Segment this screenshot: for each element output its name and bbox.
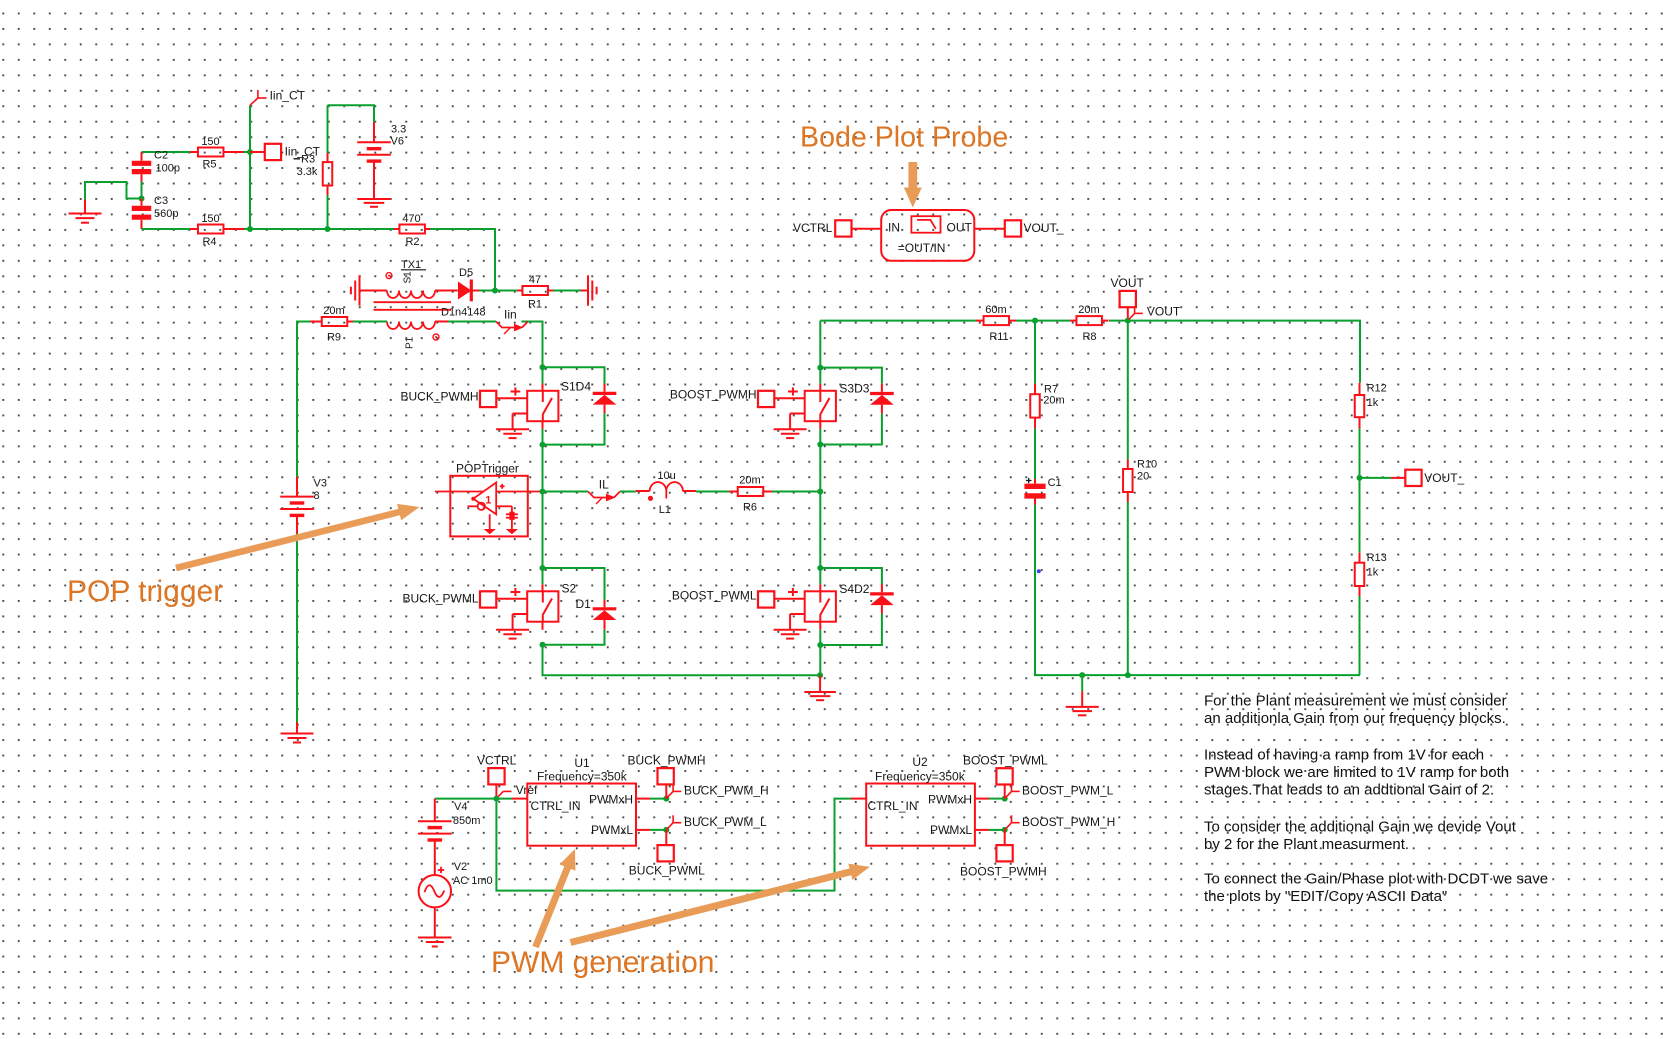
wire S2 to bottom rail bbox=[543, 645, 821, 676]
wire VCTRL loop bbox=[496, 799, 851, 891]
svg-text:C3: C3 bbox=[154, 195, 168, 207]
wire S4 loop top bbox=[820, 568, 882, 584]
svg-text:by 2 for the Plant measurment.: by 2 for the Plant measurment. bbox=[1204, 836, 1409, 853]
net label Vref bbox=[496, 783, 538, 798]
block U2 PWM bbox=[851, 755, 975, 846]
ground under V2 bbox=[418, 938, 452, 947]
transformer TX1 secondary S1 bbox=[386, 259, 458, 298]
wire S2 loop top bbox=[543, 568, 605, 600]
svg-text:R2: R2 bbox=[405, 236, 419, 248]
resistor R11 bbox=[976, 304, 1016, 343]
wire S1 loop bottom bbox=[543, 413, 605, 444]
wire C2 bottom to junction bbox=[141, 182, 143, 199]
wire U2 PWMxL bbox=[975, 829, 1005, 831]
node junction mid rail bbox=[817, 489, 823, 495]
svg-text:PWMxH: PWMxH bbox=[589, 792, 633, 806]
node junction BUCK_PWM_H bbox=[663, 796, 669, 802]
node junction S4 top bbox=[817, 565, 823, 571]
svg-text:TX1: TX1 bbox=[401, 259, 421, 271]
diode D5 bbox=[441, 267, 486, 319]
svg-text:150: 150 bbox=[201, 136, 219, 148]
annotation Bode Plot Probe bbox=[800, 122, 1008, 154]
svg-text:the plots by "EDIT/Copy ASCII: the plots by "EDIT/Copy ASCII Data" bbox=[1204, 888, 1447, 905]
resistor R6 bbox=[729, 475, 772, 514]
node junction BUCK_PWM_L bbox=[663, 827, 669, 833]
terminal BOOST_PWML bbox=[963, 754, 1048, 799]
source V3 battery bbox=[280, 477, 327, 534]
wire S3 loop bottom bbox=[820, 413, 882, 444]
svg-text:8: 8 bbox=[314, 490, 320, 502]
svg-text:BUCK_PWML: BUCK_PWML bbox=[402, 592, 478, 606]
transformer TX1 primary P1 bbox=[387, 322, 448, 350]
svg-text:1k: 1k bbox=[1367, 397, 1379, 409]
net label BOOST_PWM_L bbox=[1005, 784, 1114, 799]
svg-text:BOOST_PWML: BOOST_PWML bbox=[672, 589, 757, 603]
svg-text:3.3k: 3.3k bbox=[297, 166, 318, 178]
switch S1 bbox=[480, 367, 591, 438]
svg-text:BOOST_PWMH: BOOST_PWMH bbox=[960, 865, 1047, 879]
svg-text:R12: R12 bbox=[1367, 383, 1387, 395]
label R3 leader bbox=[294, 154, 318, 179]
wire ground branch topleft bbox=[85, 182, 142, 200]
wire mid rail down to S2 bbox=[542, 492, 544, 569]
net label lin_CT (top marker) bbox=[250, 88, 306, 105]
wire C1 to bottom rail bbox=[1035, 505, 1360, 675]
wire R3 to V6 bbox=[328, 105, 375, 122]
node junction C2/C3 bbox=[139, 196, 145, 202]
svg-text:U2: U2 bbox=[912, 755, 928, 769]
switch S3 bbox=[758, 368, 870, 439]
svg-text:BUCK_PWMH: BUCK_PWMH bbox=[400, 390, 478, 404]
wire R3 bottom bbox=[327, 195, 329, 229]
wire bus mid bbox=[244, 228, 394, 230]
terminal BUCK_PWML bbox=[629, 830, 705, 878]
wire R12 to VOUT_ node bbox=[1359, 429, 1361, 478]
svg-text:OUT: OUT bbox=[947, 221, 973, 235]
block U1 PWM bbox=[512, 756, 636, 846]
resistor R9 bbox=[310, 305, 353, 344]
wire U1 PWMxH bbox=[636, 798, 666, 800]
node junction left bottom rail bbox=[817, 672, 823, 678]
svg-text:Iin: Iin bbox=[504, 307, 517, 321]
wire V2 to ground bbox=[434, 907, 436, 936]
note text block bbox=[1204, 693, 1548, 906]
svg-text:R7: R7 bbox=[1044, 383, 1058, 395]
inductor L1 bbox=[636, 470, 696, 516]
svg-text:Frequency=350k: Frequency=350k bbox=[537, 769, 628, 783]
svg-text:P1: P1 bbox=[405, 336, 416, 349]
svg-text:PWMxL: PWMxL bbox=[930, 823, 972, 837]
resistor R12 bbox=[1355, 383, 1387, 429]
current probe IL bbox=[588, 477, 620, 504]
termination ground right of R1 bbox=[581, 275, 597, 305]
svg-text:D5: D5 bbox=[459, 267, 473, 279]
svg-text:L1: L1 bbox=[659, 504, 671, 516]
svg-text:20m: 20m bbox=[1043, 395, 1064, 407]
wire Iin to S1 node bbox=[528, 322, 543, 368]
svg-text:R5: R5 bbox=[202, 159, 216, 171]
svg-text:VOUT: VOUT bbox=[1147, 305, 1181, 319]
node junction S3 top bbox=[817, 365, 823, 371]
net label BUCK_PWM_L bbox=[666, 815, 767, 830]
diode D1 bbox=[576, 597, 617, 630]
wire R1 to termination bbox=[553, 290, 581, 292]
svg-text:C1: C1 bbox=[1048, 477, 1062, 489]
wire lin_CT vertical bbox=[249, 105, 251, 229]
label BOOST_PWML wire bbox=[672, 589, 757, 603]
wire mid rail down to S4 bbox=[819, 492, 821, 569]
svg-text:470: 470 bbox=[402, 213, 420, 225]
node junction BOOST_PWM_L bbox=[1002, 796, 1008, 802]
node junction S2 bottom bbox=[540, 642, 546, 648]
svg-text:D1: D1 bbox=[576, 597, 592, 611]
node junction S3 bottom bbox=[817, 442, 823, 448]
net label BOOST_PWM_H bbox=[1005, 815, 1116, 830]
ground bottom left rail bbox=[804, 675, 836, 700]
svg-text:V3: V3 bbox=[314, 478, 327, 490]
diode D4 bbox=[593, 384, 617, 414]
terminal VOUT_ (probe) bbox=[1005, 220, 1064, 236]
svg-text:10u: 10u bbox=[657, 470, 675, 482]
svg-text:Instead of having a ramp from: Instead of having a ramp from 1V for eac… bbox=[1204, 747, 1484, 764]
svg-text:Frequency=350k: Frequency=350k bbox=[875, 769, 966, 783]
node junction D5/R2 bbox=[492, 288, 498, 294]
svg-text:VOUT: VOUT bbox=[1111, 276, 1145, 290]
ground under V3 bbox=[281, 722, 314, 743]
terminal VCTRL (pwm) bbox=[477, 754, 517, 799]
wire top rail left bbox=[820, 320, 976, 322]
wire R7 to C1 bbox=[1034, 428, 1036, 479]
svg-text:60m: 60m bbox=[985, 304, 1006, 316]
wire S4 loop bottom bbox=[820, 614, 882, 646]
wire R11 to R8 bbox=[1016, 320, 1070, 322]
svg-text:R11: R11 bbox=[989, 331, 1008, 343]
svg-text:BUCK_PWML: BUCK_PWML bbox=[629, 864, 705, 878]
svg-text:BUCK_PWM_H: BUCK_PWM_H bbox=[684, 784, 769, 798]
capacitor C1 bbox=[1024, 477, 1061, 505]
resistor R5 bbox=[190, 136, 244, 171]
terminal Iin_CT bbox=[250, 144, 321, 160]
annotation arrow to POP bbox=[175, 504, 419, 571]
wire L1 to R6 bbox=[696, 491, 729, 493]
svg-text:100p: 100p bbox=[156, 163, 180, 175]
svg-text:20m: 20m bbox=[323, 305, 344, 317]
svg-text:PWMxL: PWMxL bbox=[591, 823, 633, 837]
svg-text:V6: V6 bbox=[391, 135, 404, 147]
svg-text:For the Plant measurement we m: For the Plant measurement we must consid… bbox=[1204, 693, 1507, 710]
svg-text:D1n4148: D1n4148 bbox=[441, 307, 486, 319]
wire VOUT_ node to R13 bbox=[1359, 478, 1361, 553]
svg-text:S4D2: S4D2 bbox=[839, 582, 869, 596]
svg-text:BOOST_PWM_H: BOOST_PWM_H bbox=[1022, 815, 1115, 829]
terminal VOUT_ bbox=[1360, 470, 1465, 486]
wire U2 PWMxH bbox=[975, 798, 1005, 800]
svg-text:CTRL_IN: CTRL_IN bbox=[868, 799, 918, 813]
node junction R5/lin_CT bbox=[247, 149, 253, 155]
svg-text:=OUT/IN: =OUT/IN bbox=[898, 241, 946, 255]
node junction S1 bottom bbox=[540, 442, 546, 448]
net label BUCK_PWM_H bbox=[666, 784, 768, 799]
wire U1 PWMxL bbox=[636, 829, 666, 831]
svg-text:BUCK_PWMH: BUCK_PWMH bbox=[628, 754, 706, 768]
wire bus to D5 node bbox=[430, 229, 495, 291]
transformer TX1 core bbox=[374, 302, 452, 310]
svg-text:PWM block we are limited to 1V: PWM block we are limited to 1V ramp for … bbox=[1204, 764, 1509, 781]
ground topleft bbox=[69, 200, 102, 223]
annotation PWM generation bbox=[491, 946, 714, 979]
capacitor C3 bbox=[132, 195, 179, 229]
resistor R1 bbox=[517, 274, 553, 311]
wire P1 to Iin probe bbox=[448, 321, 496, 323]
svg-text:BOOST_PWML: BOOST_PWML bbox=[963, 754, 1048, 768]
node junction R7 top bbox=[1032, 318, 1038, 324]
wire POP to IL bbox=[543, 491, 589, 493]
svg-text:VCTRL: VCTRL bbox=[477, 754, 517, 768]
resistor R3 bbox=[323, 153, 333, 195]
annotation arrow to probe bbox=[904, 162, 922, 208]
wire S3 to mid rail bbox=[819, 429, 821, 492]
svg-text:V2: V2 bbox=[454, 861, 467, 873]
svg-text:POP trigger: POP trigger bbox=[67, 575, 223, 608]
svg-text:U1: U1 bbox=[574, 756, 590, 770]
wire S1 to POP node bbox=[542, 429, 544, 492]
annotation POP trigger bbox=[67, 575, 223, 608]
svg-text:To connect the Gain/Phase plot: To connect the Gain/Phase plot with DCDT… bbox=[1204, 871, 1548, 888]
wire S1 loop top bbox=[543, 367, 605, 383]
svg-text:S1: S1 bbox=[403, 271, 414, 284]
source V4 battery bbox=[418, 799, 480, 876]
svg-text:C2: C2 bbox=[154, 150, 168, 162]
node junction S4 bottom bbox=[817, 642, 823, 648]
node junction S2 top bbox=[540, 565, 546, 571]
node junction R10 bottom bbox=[1125, 672, 1131, 678]
svg-text:VOUT_: VOUT_ bbox=[1424, 471, 1464, 485]
resistor R13 bbox=[1355, 552, 1387, 596]
capacitor C2 bbox=[132, 150, 180, 182]
wire R10 column bottom bbox=[1127, 502, 1129, 675]
wire top rail right bbox=[1109, 321, 1360, 383]
svg-text:VCTRL: VCTRL bbox=[793, 221, 833, 235]
svg-text:R9: R9 bbox=[327, 332, 341, 344]
source V6 battery bbox=[357, 122, 406, 199]
ground bottom right rail bbox=[1066, 675, 1099, 715]
switch S2 bbox=[480, 568, 577, 639]
svg-text:POPTrigger: POPTrigger bbox=[456, 461, 519, 475]
wire bus left bbox=[142, 228, 191, 230]
svg-text:PWMxH: PWMxH bbox=[928, 792, 972, 806]
svg-text:1: 1 bbox=[485, 495, 491, 507]
terminal BOOST_PWMH bbox=[960, 830, 1047, 879]
wire S4 to bottom ground node bbox=[819, 630, 821, 676]
wire IL to L1 bbox=[620, 491, 636, 493]
svg-text:IN: IN bbox=[888, 221, 900, 235]
wire R6 to S3 node bbox=[772, 491, 820, 493]
svg-text:R8: R8 bbox=[1082, 331, 1096, 343]
svg-text:S2: S2 bbox=[562, 582, 577, 596]
svg-text:Bode Plot Probe: Bode Plot Probe bbox=[800, 122, 1008, 154]
node junction VOUT_ bbox=[1357, 475, 1363, 481]
svg-text:CTRL_IN: CTRL_IN bbox=[531, 799, 581, 813]
resistor R8 bbox=[1070, 304, 1109, 343]
resistor R4 bbox=[190, 213, 244, 248]
label BOOST_PWMH wire bbox=[670, 388, 757, 402]
wire R10 column top bbox=[1127, 321, 1129, 460]
wire V4 to U1 bbox=[435, 798, 512, 800]
svg-text:R4: R4 bbox=[202, 236, 216, 248]
termination ground left of TX1 bbox=[351, 275, 387, 305]
wire R9 to P1 bbox=[353, 321, 387, 323]
wire C2 to R5 bbox=[142, 151, 191, 153]
svg-text:Iin_CT: Iin_CT bbox=[270, 88, 306, 102]
blue artifact dot bbox=[1037, 569, 1041, 573]
source V2 AC bbox=[419, 861, 493, 907]
svg-text:R10: R10 bbox=[1137, 458, 1157, 470]
net label VOUT bbox=[1128, 305, 1181, 321]
ground under V6 bbox=[357, 199, 391, 207]
terminal BUCK_PWMH bbox=[628, 754, 706, 799]
node junction S1 top bbox=[540, 364, 546, 370]
node junction bus/lin_CT bbox=[247, 226, 253, 232]
wire probe to VOUT_ terminal bbox=[974, 228, 1005, 230]
resistor R2 bbox=[394, 213, 430, 248]
resistor R7 bbox=[1030, 383, 1064, 428]
svg-text:R6: R6 bbox=[743, 502, 757, 514]
label BUCK_PWML wire bbox=[402, 592, 478, 606]
wire S2 loop bottom bbox=[543, 630, 605, 645]
node junction POP output bbox=[540, 489, 546, 495]
wire V3 to ground bbox=[296, 534, 298, 723]
svg-text:20m: 20m bbox=[1078, 304, 1099, 316]
terminal VOUT bbox=[1111, 276, 1145, 321]
wire VOUT node to R7 bbox=[1034, 321, 1036, 384]
svg-text:3.3: 3.3 bbox=[391, 123, 406, 135]
wire S3 loop top bbox=[820, 368, 882, 384]
wire R3 top bbox=[327, 105, 329, 153]
node junction ground tap bbox=[1079, 672, 1085, 678]
annotation arrow to U1 bbox=[532, 849, 575, 948]
svg-text:BOOST_PWMH: BOOST_PWMH bbox=[670, 388, 757, 402]
wire D5 to R1 bbox=[479, 290, 517, 292]
svg-text:S1D4: S1D4 bbox=[561, 380, 591, 394]
svg-text:V4: V4 bbox=[454, 801, 467, 813]
wire top rail down to S3 bbox=[819, 321, 821, 368]
wire R5 to junction bbox=[244, 151, 250, 153]
svg-text:R1: R1 bbox=[528, 299, 542, 311]
svg-text:S3D3: S3D3 bbox=[839, 382, 869, 396]
diode D2 bbox=[870, 584, 894, 614]
current probe Iin bbox=[496, 307, 528, 334]
svg-text:an additionla Gain from our fr: an additionla Gain from our frequency bl… bbox=[1204, 710, 1506, 727]
svg-text:BOOST_PWM_L: BOOST_PWM_L bbox=[1022, 784, 1114, 798]
node junction BOOST_PWM_H bbox=[1002, 827, 1008, 833]
svg-text:20m: 20m bbox=[739, 475, 760, 487]
svg-text:R13: R13 bbox=[1367, 552, 1387, 564]
wire V3 top to R9 bbox=[297, 322, 310, 477]
svg-text:stages.That leads to an addtio: stages.That leads to an addtional Gain o… bbox=[1204, 782, 1494, 799]
svg-text:150: 150 bbox=[201, 213, 219, 225]
svg-text:20: 20 bbox=[1137, 471, 1149, 483]
terminal VCTRL (probe) bbox=[793, 220, 881, 236]
svg-text:R3: R3 bbox=[301, 154, 315, 166]
wire R13 to bottom rail bbox=[1359, 596, 1361, 675]
svg-text:BUCK_PWM_L: BUCK_PWM_L bbox=[684, 815, 767, 829]
svg-text:IL: IL bbox=[599, 477, 609, 491]
node junction VCTRL bbox=[493, 796, 499, 802]
svg-text:850m: 850m bbox=[453, 815, 481, 827]
annotation arrow to U2 bbox=[570, 864, 870, 946]
node junction bus/R3 bbox=[325, 226, 331, 232]
node junction VOUT bbox=[1125, 318, 1131, 324]
svg-text:AC 1m0: AC 1m0 bbox=[453, 875, 493, 887]
svg-text:560p: 560p bbox=[154, 208, 178, 220]
diode D3 bbox=[870, 384, 894, 414]
label BUCK_PWMH wire bbox=[400, 390, 478, 404]
svg-text:47: 47 bbox=[529, 274, 541, 286]
probe Bode block bbox=[881, 210, 974, 261]
svg-text:PWM generation: PWM generation bbox=[491, 946, 714, 979]
resistor R10 bbox=[1123, 458, 1157, 502]
svg-text:VOUT_: VOUT_ bbox=[1024, 221, 1064, 235]
switch S4 bbox=[758, 568, 870, 639]
svg-text:1k: 1k bbox=[1367, 566, 1379, 578]
block POPTrigger bbox=[435, 461, 540, 536]
svg-text:To consider the additional Gai: To consider the additional Gain we devid… bbox=[1204, 819, 1517, 836]
